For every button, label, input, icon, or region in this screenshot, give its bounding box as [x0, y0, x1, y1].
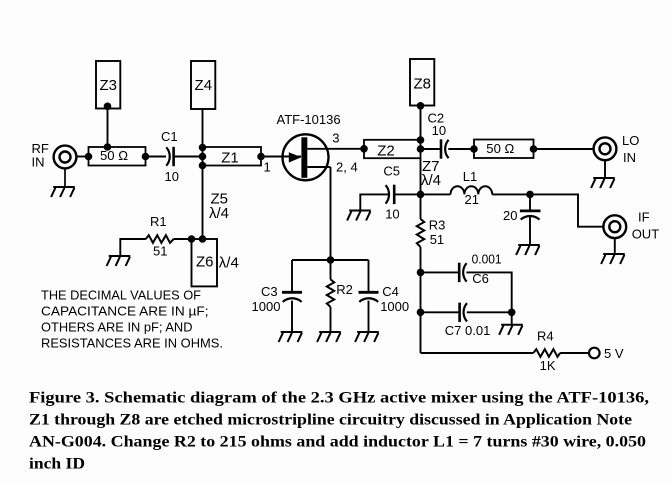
label IF OUT	[632, 209, 660, 241]
svg-text:1000: 1000	[380, 299, 409, 314]
capacitor C7	[460, 303, 467, 322]
ground left of R1	[107, 256, 131, 266]
svg-text:CAPACITANCE ARE IN µF;: CAPACITANCE ARE IN µF;	[41, 304, 209, 319]
label LO IN	[622, 133, 639, 165]
wire 50ohm box to C1	[146, 156, 167, 158]
microstrip Z2 box	[364, 140, 421, 158]
wire R4 to 5V terminal	[560, 352, 589, 354]
wire C3 bottom lead to ground	[291, 301, 293, 332]
svg-text:R1: R1	[150, 214, 167, 229]
ground below C5	[347, 211, 371, 221]
microstrip Z6 box	[192, 239, 218, 286]
wire bypass bus C3 to C4	[292, 259, 369, 261]
svg-text:1000: 1000	[252, 299, 281, 314]
wire transistor source down to bypass node	[330, 167, 332, 260]
svg-text:50 Ω: 50 Ω	[486, 141, 514, 156]
svg-text:L1: L1	[463, 169, 477, 184]
svg-text:51: 51	[430, 232, 444, 247]
node dot Z6 top left	[188, 235, 196, 243]
svg-text:10: 10	[385, 206, 399, 221]
microstrip Z1 box	[203, 147, 262, 166]
wire C2 to LO 50ohm box	[448, 148, 474, 150]
node dot Z3 bottom	[104, 103, 112, 111]
wire C4 bottom lead to ground	[368, 301, 370, 332]
node dot Z8 bottom	[417, 102, 425, 110]
svg-text:Z3: Z3	[99, 77, 117, 94]
capacitor C1	[166, 147, 173, 166]
note text block	[41, 288, 223, 351]
node dot 50ohm box right	[142, 153, 150, 161]
wire L1 to IF elbow	[492, 194, 603, 226]
svg-text:3: 3	[332, 131, 339, 146]
svg-text:51: 51	[153, 244, 167, 259]
connector J2 LO IN	[594, 137, 617, 160]
svg-text:RESISTANCES ARE IN OHMS.: RESISTANCES ARE IN OHMS.	[41, 335, 223, 350]
wire R1 to Z6	[174, 238, 192, 240]
wire transistor source pins 2,4 horizontal	[307, 166, 330, 168]
svg-text:C7 0.01: C7 0.01	[445, 323, 491, 338]
svg-text:2, 4: 2, 4	[336, 160, 358, 175]
resistor R1	[146, 235, 174, 243]
resistor R4	[533, 349, 560, 357]
wire Z4 stem down through Z1 to Z6 (node line A)	[202, 109, 204, 239]
ground below RF IN	[51, 187, 75, 197]
svg-text:R3: R3	[429, 218, 446, 233]
svg-text:Z8: Z8	[413, 76, 431, 93]
svg-text:OTHERS ARE IN pF; AND: OTHERS ARE IN pF; AND	[41, 319, 193, 334]
wire C7 left lead	[421, 311, 460, 313]
wire node to L1	[421, 193, 451, 195]
node dot Z1 top left	[199, 144, 207, 152]
node dot C7 junction	[417, 309, 425, 317]
wire C5 to node	[394, 193, 420, 195]
node dot C6 junction	[417, 269, 425, 277]
wire Z8 stem	[420, 105, 422, 140]
svg-text:OUT: OUT	[632, 227, 660, 242]
capacitor C3	[282, 292, 302, 302]
connector J3 IF OUT	[603, 215, 626, 238]
capacitor 20pF IF	[520, 211, 541, 220]
node dot 50ohm box left	[85, 153, 93, 161]
svg-text:5 V: 5 V	[604, 346, 624, 361]
node dot Z7 L1 C5 junction	[417, 191, 425, 199]
wire C6 right lead down to C7 node	[466, 272, 511, 312]
wire R2 top lead	[330, 260, 332, 279]
wire R3 to C6 node	[420, 247, 422, 272]
capacitor C5	[386, 185, 395, 204]
svg-text:λ/4: λ/4	[209, 205, 229, 222]
svg-text:C1: C1	[161, 129, 178, 144]
node dot Z1 mid left	[199, 153, 207, 161]
svg-text:IN: IN	[32, 155, 45, 170]
node dot Z1 bottom left	[199, 162, 207, 170]
wire C1 to Z1	[174, 156, 203, 158]
svg-text:Z1 through Z8 are etched micro: Z1 through Z8 are etched microstripline …	[29, 412, 632, 429]
svg-text:ATF-10136: ATF-10136	[277, 112, 341, 127]
svg-text:THE DECIMAL VALUES OF: THE DECIMAL VALUES OF	[41, 288, 201, 303]
wire Z1 to transistor gate	[261, 156, 301, 158]
capacitor C6	[459, 263, 466, 282]
node dot Z2 left	[360, 145, 368, 153]
svg-text:Z2: Z2	[377, 143, 395, 160]
ground below IF OUT	[601, 254, 625, 264]
ground below C3	[279, 332, 303, 342]
svg-text:LO: LO	[622, 133, 639, 148]
ground below LO IN	[591, 178, 615, 188]
wire RF connector to 50ohm box	[77, 156, 89, 158]
wire C4 top lead	[368, 260, 370, 292]
microstrip Z8 box	[410, 59, 434, 106]
inductor L1	[451, 186, 493, 194]
transistor Q1 ATF-10136	[283, 134, 329, 180]
node dot LO box left	[470, 145, 478, 153]
ground below 20pF cap	[516, 245, 540, 255]
capacitor C2	[441, 139, 449, 158]
svg-text:Z6: Z6	[196, 253, 214, 270]
wire Z2 right node to C2	[421, 148, 442, 150]
wire C7 right lead	[467, 311, 512, 313]
ground below R2	[317, 332, 341, 342]
wire R2 bottom lead to ground	[330, 307, 332, 332]
wire Z7 quarter-wave line down	[420, 158, 422, 194]
svg-text:20: 20	[503, 208, 517, 223]
node dot Z6 top Z5	[199, 235, 207, 243]
wire C7 node down to bias rail	[420, 312, 422, 353]
node dot Z2 top right	[417, 136, 425, 144]
svg-text:1: 1	[264, 160, 271, 175]
microstrip 50 ohm box RF side	[89, 147, 146, 166]
node dot LO box right	[530, 145, 538, 153]
svg-text:C6: C6	[472, 271, 489, 286]
svg-text:R2: R2	[336, 282, 353, 297]
node dot C6 C7 right junction	[508, 309, 516, 317]
wire C6 left lead	[421, 271, 460, 273]
terminal 5V	[589, 348, 600, 359]
microstrip 50 ohm box LO side	[474, 140, 534, 159]
svg-text:C5: C5	[383, 163, 400, 178]
svg-text:C3: C3	[261, 284, 278, 299]
node dot source bypass junction	[327, 256, 335, 264]
microstrip Z3 box	[96, 61, 120, 109]
wire C6 C7 ground stem	[511, 312, 513, 325]
wire node to R3	[420, 194, 422, 219]
svg-text:Figure 3. Schematic diagram of: Figure 3. Schematic diagram of the 2.3 G…	[29, 390, 649, 407]
svg-text:λ/4: λ/4	[421, 172, 441, 189]
svg-text:IF: IF	[638, 209, 650, 224]
node dot 50ohm box top	[104, 143, 112, 151]
resistor R3	[417, 219, 424, 247]
capacitor C4	[359, 292, 379, 302]
svg-text:10: 10	[432, 123, 446, 138]
wire Z3 stem	[107, 109, 109, 148]
svg-text:1K: 1K	[540, 358, 556, 373]
wire IF connector ground stem	[614, 239, 616, 254]
wire C3 top lead	[291, 260, 293, 292]
svg-text:Z1: Z1	[221, 149, 239, 166]
wire LO connector ground stem	[604, 161, 606, 178]
wire R1 ground elbow	[120, 239, 146, 256]
wire C5 ground elbow	[360, 194, 388, 210]
node dot Z1 right pin1	[257, 153, 265, 161]
ground below C6 C7	[499, 325, 523, 335]
connector J1 RF IN	[54, 146, 77, 187]
svg-text:21: 21	[465, 192, 479, 207]
svg-text:C4: C4	[382, 284, 399, 299]
svg-text:R4: R4	[537, 329, 554, 344]
node dot 20pF junction	[526, 191, 534, 199]
resistor R2	[327, 279, 334, 307]
svg-text:λ/4: λ/4	[219, 255, 239, 272]
wire 20pF cap stem top	[529, 194, 531, 210]
svg-text:Z4: Z4	[195, 77, 213, 94]
svg-text:10: 10	[165, 169, 179, 184]
wire C6 node to C7 node	[420, 272, 422, 312]
figure caption	[29, 390, 649, 473]
wire 20pF cap stem to ground	[529, 217, 531, 245]
wire transistor drain pin 3 to Z2	[307, 148, 364, 150]
svg-text:inch ID: inch ID	[29, 456, 85, 473]
label RF IN	[32, 141, 49, 170]
svg-text:IN: IN	[623, 150, 636, 165]
svg-text:0.001: 0.001	[472, 251, 502, 266]
svg-text:AN-G004. Change R2 to 215 ohms: AN-G004. Change R2 to 215 ohms and add i…	[29, 434, 646, 451]
wire LO 50ohm box to LO connector	[534, 148, 594, 150]
microstrip Z4 box	[191, 61, 215, 109]
node dot Z2 right	[417, 145, 425, 153]
wire bias rail to R4	[421, 352, 534, 354]
ground below C4	[355, 332, 379, 342]
svg-text:50 Ω: 50 Ω	[100, 148, 128, 163]
